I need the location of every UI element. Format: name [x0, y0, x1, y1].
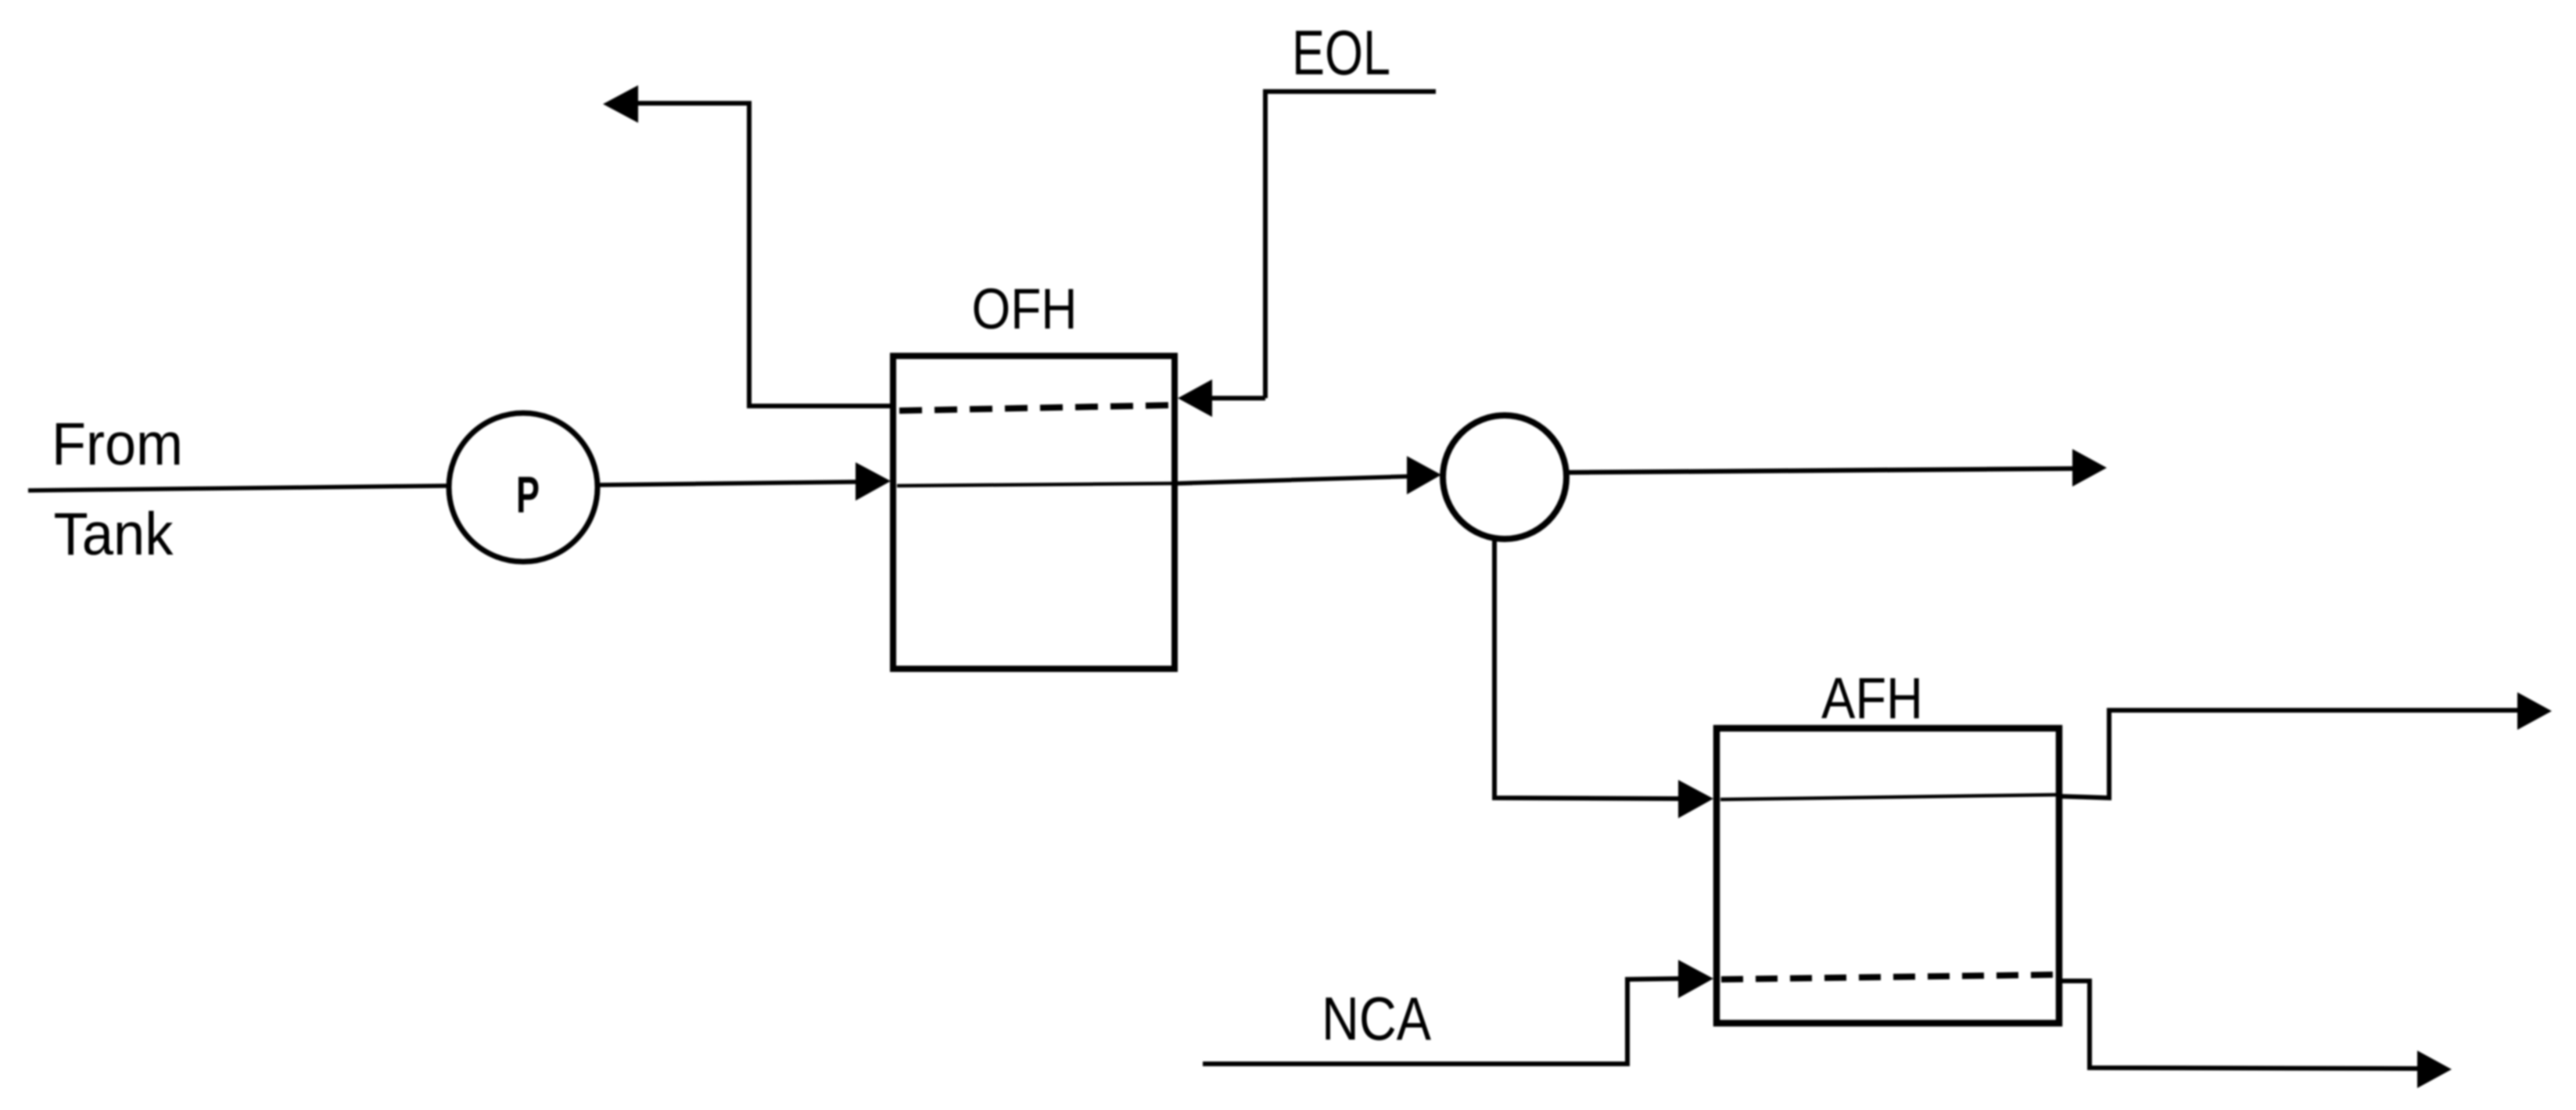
svg-text:Tank: Tank: [54, 501, 174, 568]
svg-text:P: P: [516, 465, 540, 523]
svg-text:From: From: [52, 411, 183, 478]
svg-text:NCA: NCA: [1322, 984, 1431, 1053]
svg-text:OFH: OFH: [972, 278, 1078, 341]
svg-text:EOL: EOL: [1292, 18, 1390, 88]
svg-text:AFH: AFH: [1821, 666, 1923, 731]
